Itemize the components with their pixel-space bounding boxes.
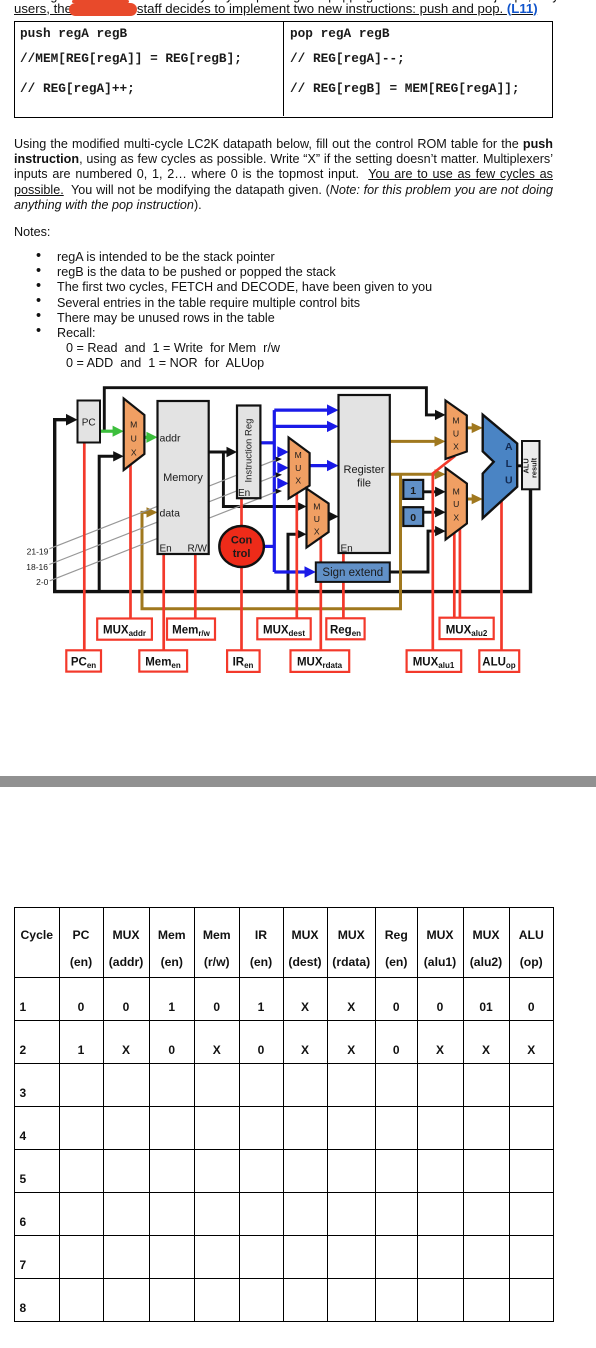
bullet list — [36, 249, 41, 264]
svg-text:X: X — [453, 513, 459, 523]
svg-text:L: L — [506, 458, 513, 470]
svg-text:21-19: 21-19 — [27, 546, 49, 556]
svg-text:2-0: 2-0 — [36, 577, 49, 587]
mux MUXalu1 — [446, 401, 467, 460]
wire: blue branch to Sign extend — [274, 570, 305, 573]
mux MUXrdata — [307, 489, 329, 548]
control signal red line: MUX dest — [295, 493, 298, 620]
svg-text:U: U — [505, 475, 513, 487]
svg-text:M: M — [295, 450, 302, 460]
control ROM table — [14, 907, 554, 1323]
signal label box MUX rdata — [291, 650, 350, 672]
wire: green MUXaddr to Memory addr — [144, 436, 148, 439]
mux MUXdest — [289, 438, 310, 499]
control signal red line: ALU op — [500, 501, 503, 651]
svg-text:Sign extend: Sign extend — [322, 567, 383, 579]
signal label box Mem r/w — [167, 619, 215, 640]
svg-text:18-16: 18-16 — [26, 562, 48, 572]
svg-text:trol: trol — [233, 548, 251, 560]
svg-text:data: data — [160, 508, 181, 520]
svg-text:U: U — [295, 463, 301, 473]
wire: memory data out to Instruction Reg — [209, 451, 228, 454]
gray divider bar — [0, 776, 596, 787]
svg-text:En: En — [341, 544, 353, 555]
wire: MUXrdata output into Register file — [329, 515, 330, 518]
svg-text:En: En — [160, 544, 172, 555]
svg-text:U: U — [453, 429, 459, 439]
wire: brown MUXalu2 output to ALU — [467, 498, 473, 501]
wire: top feedback (PC value) to MUXalu1 input 0 — [104, 388, 436, 431]
constant 0 box — [403, 507, 423, 526]
ALU — [483, 415, 518, 518]
svg-text:0: 0 — [410, 512, 416, 524]
control signal red lines: MUX alu2 (2 bits) — [453, 533, 456, 619]
svg-text:X: X — [295, 476, 301, 486]
wire: blue branch to MUXdest input 2 — [277, 478, 288, 489]
instruction register — [237, 406, 260, 499]
control signal red line: MUX alu1 — [433, 456, 455, 651]
svg-text:Con: Con — [231, 535, 253, 547]
red marker blob over course name — [69, 3, 137, 17]
sign extend unit — [316, 562, 390, 582]
svg-text:X: X — [314, 527, 320, 537]
wire: memory data out branch down to MUXrdata input 0 — [223, 452, 297, 507]
signal label box Mem en — [139, 650, 187, 671]
signal label box MUXaddr — [97, 619, 152, 640]
wire: outer black feedback loop (ALU result -> bottom -> left -> PC input) — [55, 420, 531, 592]
svg-text:U: U — [131, 434, 137, 444]
svg-text:file: file — [357, 478, 371, 490]
signal label box MUX alu2 — [440, 618, 494, 639]
wire: riser from bottom loop into MUXaddr input 1 — [99, 456, 114, 591]
signal label box MUX alu1 — [407, 650, 462, 672]
wire: ALU output to ALU result box — [517, 464, 522, 467]
control signal red line: Mem r/w — [194, 554, 197, 619]
node 2-0 bit-field line — [50, 491, 278, 581]
svg-text:U: U — [453, 499, 459, 509]
register file — [339, 395, 390, 553]
memory unit — [158, 401, 209, 554]
control signal red line: MUX rdata — [319, 537, 322, 651]
control signal red line: Reg en — [342, 553, 345, 619]
wire: brown Register file read data 2 to MUXalu2 — [390, 473, 435, 476]
svg-text:En: En — [238, 488, 250, 499]
node 21-19 bit-field line — [49, 459, 277, 549]
wire: brown MUXalu1 output to ALU — [467, 426, 473, 429]
control signal red line: Mem en — [162, 554, 165, 651]
ALU result register — [522, 441, 540, 489]
svg-text:Register: Register — [344, 464, 385, 476]
svg-text:X: X — [131, 448, 137, 458]
DATAPATH DIAGRAM — [0, 380, 596, 680]
svg-text:U: U — [314, 514, 320, 524]
svg-text:R/W: R/W — [188, 544, 208, 555]
svg-text:M: M — [453, 487, 460, 497]
wire: blue branch to MUXdest input 0 — [277, 446, 288, 457]
wire: brown loop from read data 2 down and around to Memory data input — [142, 474, 401, 608]
wire: green PC to MUXaddr — [100, 430, 114, 433]
wire: blue MUXdest output to Register file — [310, 464, 328, 467]
svg-text:X: X — [453, 442, 459, 452]
control signal red line: IR en — [240, 498, 243, 651]
svg-text:result: result — [530, 457, 539, 478]
signal label box Reg en — [326, 618, 364, 639]
wire: blue instruction bus vertical — [273, 410, 276, 572]
signal label box ALU op — [479, 650, 519, 672]
wire: constant 1 box to MUXalu2 — [423, 490, 436, 493]
mux MUXalu2 — [446, 468, 467, 540]
wire: blue branch to MUXdest input 1 — [277, 462, 288, 473]
svg-text:A: A — [505, 441, 513, 453]
wire: brown Register file read data 1 to MUXalu1 — [390, 440, 435, 443]
mux MUXaddr — [124, 399, 145, 471]
wire: blue branch to Register file port 1 — [274, 409, 328, 412]
register PC — [78, 401, 101, 443]
wire: blue branch to Register file port 2 — [274, 425, 328, 428]
signal label box PC en — [66, 650, 101, 671]
control signal red line: PC en — [83, 442, 86, 651]
wire: blue Instruction Reg output to bus — [260, 441, 274, 444]
svg-text:Instruction Reg: Instruction Reg — [244, 419, 255, 483]
svg-text:M: M — [130, 420, 137, 430]
red marker streak (top, cut) — [72, 0, 129, 3]
first visible text line — [14, 1, 538, 16]
svg-text:addr: addr — [160, 433, 182, 445]
wire: blue link from Control to bus — [263, 545, 274, 548]
two-column code table — [14, 21, 553, 119]
svg-text:M: M — [452, 416, 459, 426]
svg-text:PC: PC — [82, 418, 96, 429]
signal label box MUXdest — [257, 618, 310, 639]
svg-text:1: 1 — [410, 485, 416, 497]
wire: riser from bottom loop into MUXrdata input 1 — [288, 534, 297, 591]
control unit — [219, 526, 264, 567]
wire: constant 0 box to MUXalu2 — [423, 511, 436, 514]
wire: arrow into PC — [66, 414, 78, 426]
node 18-16 bit-field line — [49, 475, 277, 565]
control signal red line: MUX addr — [129, 462, 132, 620]
svg-text:M: M — [313, 502, 320, 512]
constant 1 box — [403, 480, 423, 499]
remnant of cut-off previous text line at very top — [0, 0, 596, 3]
svg-text:Memory: Memory — [163, 472, 203, 484]
paragraph — [14, 137, 553, 152]
signal label box IR en — [227, 650, 260, 672]
wire: sign extend output to MUXalu2 input 3 — [390, 531, 436, 572]
